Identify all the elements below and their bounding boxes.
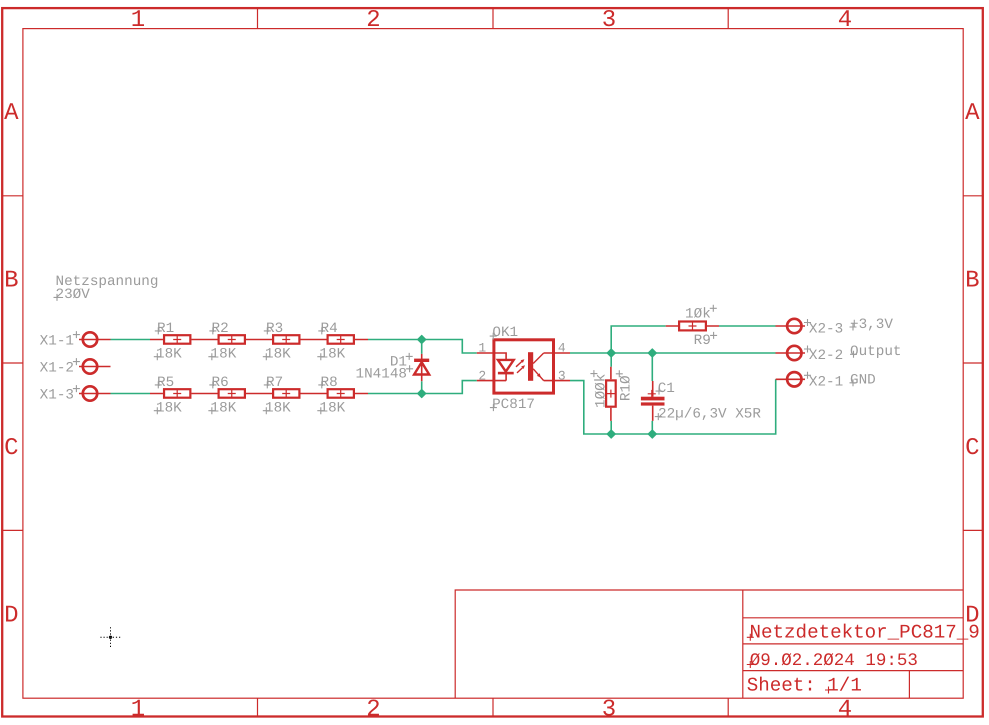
svg-text:18K: 18K bbox=[265, 401, 291, 417]
svg-text:18K: 18K bbox=[211, 347, 237, 363]
svg-text:R5: R5 bbox=[157, 375, 174, 391]
svg-text:1Øk: 1Øk bbox=[685, 307, 711, 323]
svg-text:GND: GND bbox=[850, 373, 876, 389]
svg-text:3: 3 bbox=[602, 7, 616, 34]
svg-text:22µ/6,3V X5R: 22µ/6,3V X5R bbox=[658, 406, 761, 422]
svg-text:4: 4 bbox=[838, 7, 852, 34]
svg-text:1: 1 bbox=[131, 696, 145, 723]
svg-text:4: 4 bbox=[838, 696, 852, 723]
svg-text:C1: C1 bbox=[658, 381, 675, 397]
svg-text:D: D bbox=[4, 603, 18, 630]
svg-text:18K: 18K bbox=[211, 401, 237, 417]
svg-text:OK1: OK1 bbox=[492, 325, 518, 341]
svg-text:X2-1: X2-1 bbox=[809, 374, 843, 390]
svg-text:1N4148: 1N4148 bbox=[356, 367, 407, 383]
svg-text:X2-2: X2-2 bbox=[809, 348, 843, 364]
svg-text:R1: R1 bbox=[157, 321, 174, 337]
svg-text:X1-3: X1-3 bbox=[40, 388, 74, 404]
svg-text:R6: R6 bbox=[212, 375, 229, 391]
svg-text:R1Ø: R1Ø bbox=[618, 375, 634, 401]
svg-text:Sheet: 1/1: Sheet: 1/1 bbox=[747, 674, 862, 696]
svg-text:+3,3V: +3,3V bbox=[850, 317, 893, 333]
svg-text:1ØØk: 1ØØk bbox=[594, 374, 610, 408]
svg-text:18K: 18K bbox=[156, 347, 182, 363]
svg-text:18K: 18K bbox=[156, 401, 182, 417]
svg-text:1: 1 bbox=[478, 341, 486, 356]
svg-text:A: A bbox=[965, 100, 980, 127]
svg-text:R7: R7 bbox=[266, 375, 283, 391]
svg-text:C: C bbox=[4, 435, 18, 462]
svg-text:18K: 18K bbox=[265, 347, 291, 363]
svg-text:4: 4 bbox=[558, 341, 566, 356]
svg-text:2: 2 bbox=[478, 368, 486, 383]
svg-text:C: C bbox=[965, 435, 979, 462]
svg-text:18K: 18K bbox=[320, 401, 346, 417]
svg-text:B: B bbox=[4, 268, 18, 295]
svg-text:R8: R8 bbox=[321, 375, 338, 391]
svg-text:A: A bbox=[4, 100, 19, 127]
svg-text:Ø9.Ø2.2Ø24 19:53: Ø9.Ø2.2Ø24 19:53 bbox=[750, 651, 918, 671]
svg-text:Netzdetektor_PC817_9: Netzdetektor_PC817_9 bbox=[750, 622, 980, 644]
svg-text:B: B bbox=[965, 268, 979, 295]
svg-text:1: 1 bbox=[131, 7, 145, 34]
svg-text:X1-1: X1-1 bbox=[40, 334, 74, 350]
svg-text:R9: R9 bbox=[694, 333, 711, 349]
svg-text:2: 2 bbox=[366, 696, 380, 723]
svg-text:Output: Output bbox=[850, 344, 901, 360]
svg-text:2: 2 bbox=[366, 7, 380, 34]
svg-text:R2: R2 bbox=[212, 321, 229, 337]
svg-text:18K: 18K bbox=[320, 347, 346, 363]
svg-text:X2-3: X2-3 bbox=[809, 322, 843, 338]
svg-text:3: 3 bbox=[558, 368, 566, 383]
svg-text:PC817: PC817 bbox=[492, 397, 535, 413]
svg-text:X1-2: X1-2 bbox=[40, 361, 74, 377]
svg-text:23ØV: 23ØV bbox=[56, 287, 91, 303]
svg-text:R3: R3 bbox=[266, 321, 283, 337]
svg-text:R4: R4 bbox=[321, 321, 338, 337]
svg-text:3: 3 bbox=[602, 696, 616, 723]
